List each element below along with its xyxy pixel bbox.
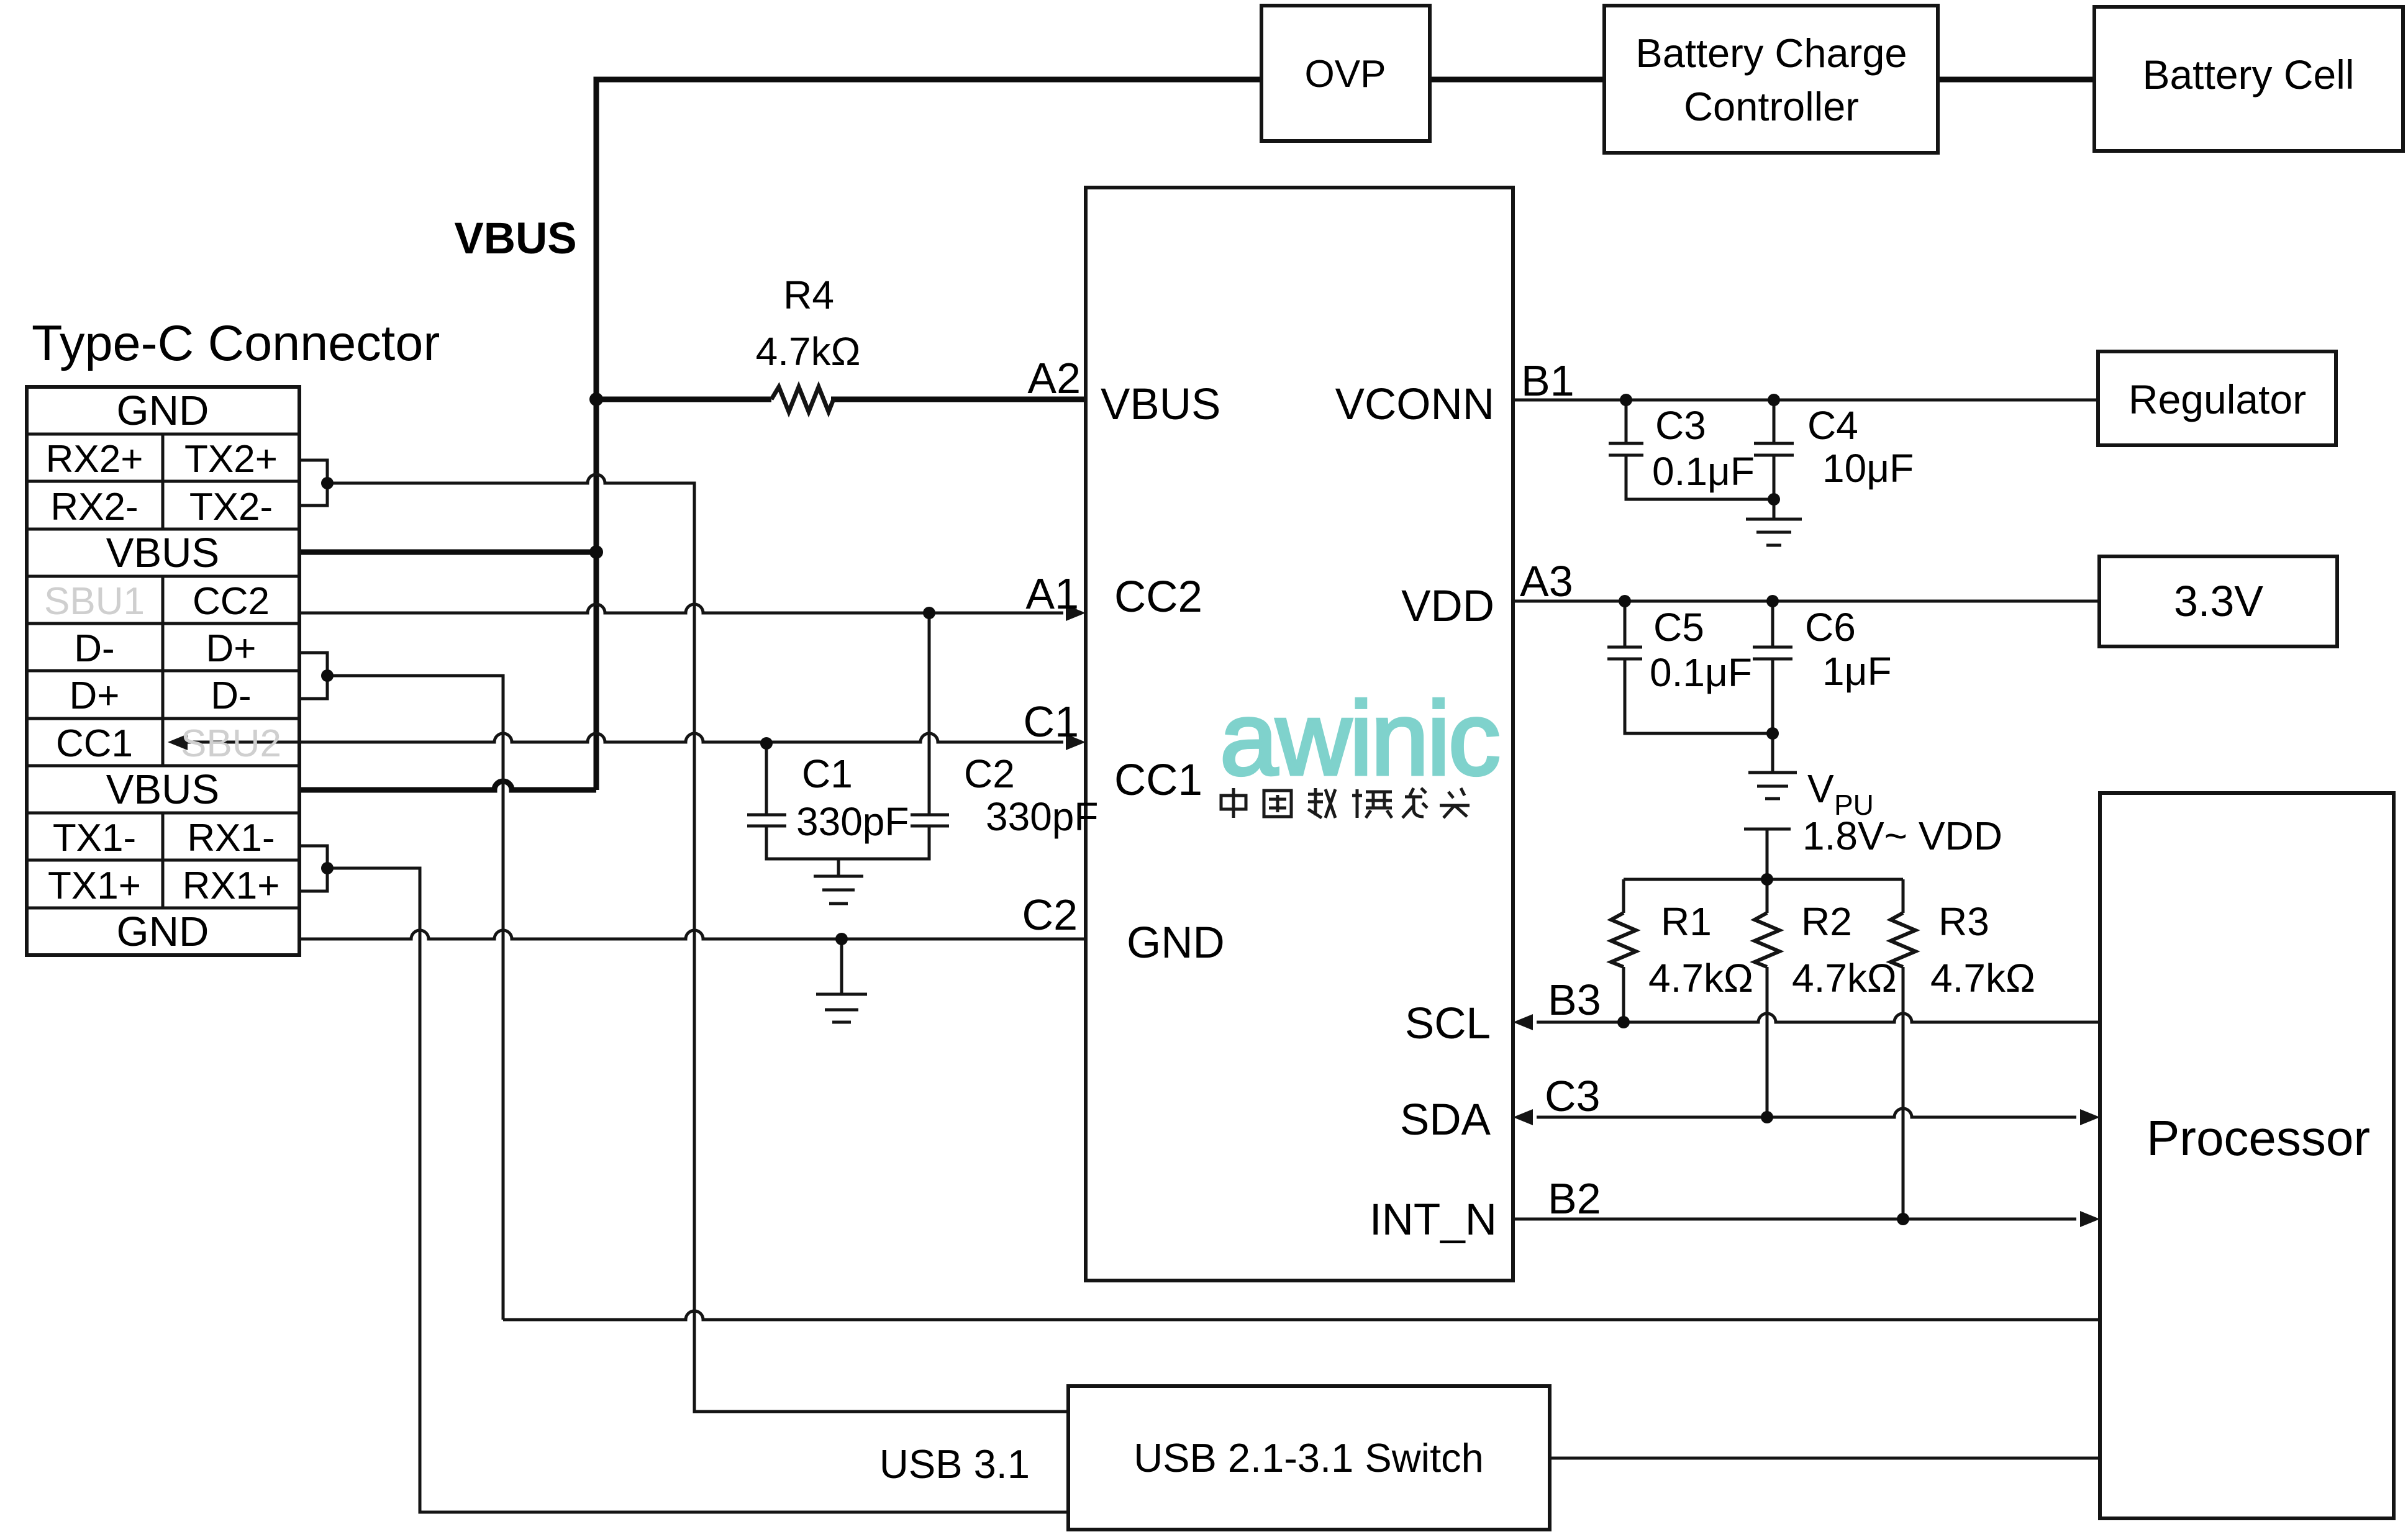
svg-text:Regulator: Regulator bbox=[2129, 376, 2306, 422]
svg-text:V: V bbox=[1807, 766, 1834, 811]
svg-text:D-: D- bbox=[74, 627, 114, 670]
svg-text:A1: A1 bbox=[1025, 569, 1079, 618]
svg-text:C3: C3 bbox=[1545, 1072, 1600, 1120]
svg-text:C6: C6 bbox=[1805, 605, 1856, 650]
svg-text:CC2: CC2 bbox=[1114, 573, 1202, 622]
svg-text:RX1+: RX1+ bbox=[183, 864, 280, 907]
svg-text:CC2: CC2 bbox=[193, 580, 270, 623]
svg-text:10μF: 10μF bbox=[1822, 446, 1914, 491]
svg-text:A2: A2 bbox=[1027, 354, 1081, 402]
svg-text:1.8V~ VDD: 1.8V~ VDD bbox=[1802, 814, 2002, 858]
svg-text:A3: A3 bbox=[1520, 557, 1573, 605]
svg-text:C5: C5 bbox=[1653, 605, 1704, 650]
svg-text:0.1μF: 0.1μF bbox=[1652, 449, 1755, 494]
svg-text:awinic: awinic bbox=[1220, 680, 1499, 797]
svg-text:VCONN: VCONN bbox=[1335, 380, 1494, 429]
svg-text:TX1-: TX1- bbox=[53, 817, 136, 859]
svg-text:VBUS: VBUS bbox=[106, 766, 219, 813]
svg-text:1μF: 1μF bbox=[1822, 649, 1892, 694]
svg-text:4.7kΩ: 4.7kΩ bbox=[1792, 956, 1897, 1000]
svg-text:RX1-: RX1- bbox=[187, 817, 275, 859]
svg-text:USB 3.1: USB 3.1 bbox=[879, 1441, 1030, 1487]
svg-text:Type-C Connector: Type-C Connector bbox=[32, 315, 440, 371]
svg-text:OVP: OVP bbox=[1305, 53, 1386, 96]
svg-text:INT_N: INT_N bbox=[1370, 1195, 1497, 1245]
svg-text:C2: C2 bbox=[1022, 891, 1078, 939]
svg-text:B2: B2 bbox=[1548, 1174, 1601, 1223]
svg-text:B3: B3 bbox=[1548, 976, 1601, 1024]
svg-text:B1: B1 bbox=[1521, 356, 1574, 405]
svg-text:Battery Cell: Battery Cell bbox=[2142, 52, 2354, 97]
svg-text:SDA: SDA bbox=[1400, 1095, 1491, 1145]
svg-text:SBU2: SBU2 bbox=[181, 722, 281, 765]
svg-text:GND: GND bbox=[1127, 918, 1225, 968]
svg-text:VDD: VDD bbox=[1401, 582, 1494, 631]
svg-text:D-: D- bbox=[211, 674, 251, 717]
svg-text:4.7kΩ: 4.7kΩ bbox=[1930, 956, 2035, 1000]
svg-text:C1: C1 bbox=[1024, 697, 1079, 746]
svg-text:D+: D+ bbox=[206, 627, 257, 670]
svg-text:Processor: Processor bbox=[2147, 1110, 2370, 1166]
svg-text:CC1: CC1 bbox=[56, 722, 133, 765]
svg-text:VBUS: VBUS bbox=[454, 214, 576, 263]
svg-text:RX2+: RX2+ bbox=[46, 438, 143, 481]
svg-text:0.1μF: 0.1μF bbox=[1650, 650, 1752, 695]
svg-text:VBUS: VBUS bbox=[106, 530, 219, 576]
svg-text:Battery Charge: Battery Charge bbox=[1635, 30, 1907, 76]
svg-text:4.7kΩ: 4.7kΩ bbox=[756, 329, 861, 374]
svg-text:R1: R1 bbox=[1661, 899, 1712, 944]
svg-text:330pF: 330pF bbox=[986, 794, 1098, 839]
svg-text:TX1+: TX1+ bbox=[48, 864, 141, 907]
svg-text:C1: C1 bbox=[802, 751, 853, 796]
svg-text:C4: C4 bbox=[1807, 403, 1858, 448]
svg-text:GND: GND bbox=[117, 909, 209, 955]
svg-text:RX2-: RX2- bbox=[50, 486, 138, 528]
svg-text:GND: GND bbox=[117, 388, 209, 434]
svg-text:Controller: Controller bbox=[1684, 84, 1859, 129]
svg-text:330pF: 330pF bbox=[796, 799, 909, 844]
svg-text:TX2-: TX2- bbox=[189, 486, 273, 528]
svg-text:R2: R2 bbox=[1801, 899, 1852, 944]
svg-text:R3: R3 bbox=[1938, 899, 1989, 944]
svg-text:SBU1: SBU1 bbox=[44, 580, 145, 623]
svg-text:C3: C3 bbox=[1655, 403, 1706, 448]
svg-text:CC1: CC1 bbox=[1114, 756, 1202, 805]
svg-text:4.7kΩ: 4.7kΩ bbox=[1648, 956, 1753, 1000]
svg-text:SCL: SCL bbox=[1405, 999, 1491, 1048]
svg-text:VBUS: VBUS bbox=[1101, 380, 1220, 429]
svg-text:C2: C2 bbox=[964, 751, 1015, 796]
svg-text:D+: D+ bbox=[70, 674, 120, 717]
svg-text:USB 2.1-3.1 Switch: USB 2.1-3.1 Switch bbox=[1134, 1435, 1484, 1480]
svg-text:R4: R4 bbox=[783, 273, 834, 317]
svg-text:3.3V: 3.3V bbox=[2174, 577, 2263, 625]
svg-text:TX2+: TX2+ bbox=[184, 438, 278, 481]
